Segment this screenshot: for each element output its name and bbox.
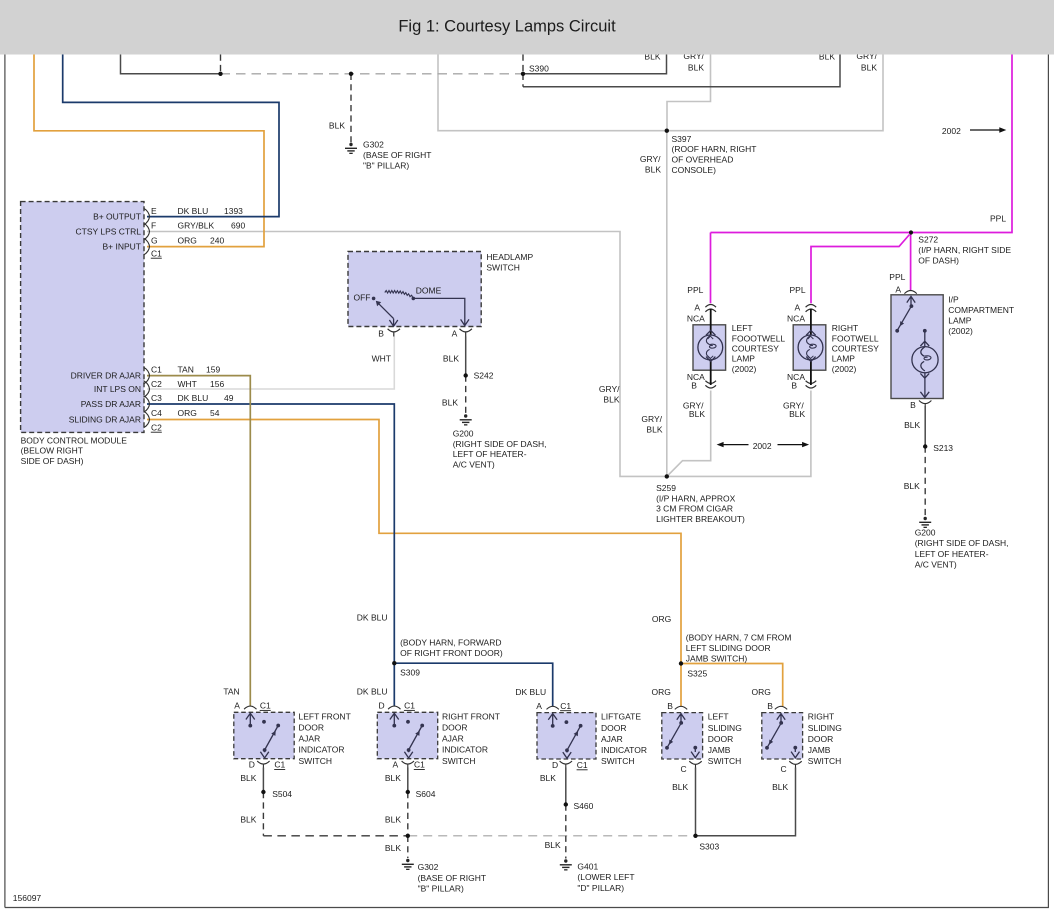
svg-text:DK BLU: DK BLU bbox=[357, 686, 388, 696]
svg-text:BLK: BLK bbox=[646, 424, 662, 434]
svg-text:ORG: ORG bbox=[178, 235, 197, 245]
svg-text:54: 54 bbox=[210, 408, 220, 418]
svg-text:(LOWER LEFT: (LOWER LEFT bbox=[577, 872, 634, 882]
svg-text:AJAR: AJAR bbox=[442, 734, 464, 744]
svg-text:C3: C3 bbox=[151, 393, 162, 403]
svg-text:690: 690 bbox=[231, 221, 245, 231]
svg-text:C4: C4 bbox=[151, 408, 162, 418]
svg-text:LEFT FRONT: LEFT FRONT bbox=[299, 711, 351, 721]
svg-text:S397: S397 bbox=[672, 134, 692, 144]
svg-text:"D" PILLAR): "D" PILLAR) bbox=[577, 883, 624, 893]
svg-text:OF DASH): OF DASH) bbox=[918, 256, 959, 266]
svg-text:B: B bbox=[378, 329, 384, 339]
svg-text:G200: G200 bbox=[915, 527, 936, 537]
svg-text:PPL: PPL bbox=[889, 272, 905, 282]
svg-text:DK BLU: DK BLU bbox=[357, 612, 388, 622]
svg-text:BLK: BLK bbox=[385, 843, 401, 853]
svg-text:S390: S390 bbox=[529, 64, 549, 74]
svg-text:JAMB: JAMB bbox=[808, 745, 831, 755]
svg-text:PPL: PPL bbox=[990, 213, 1006, 223]
svg-text:INDICATOR: INDICATOR bbox=[442, 745, 488, 755]
svg-text:BLK: BLK bbox=[861, 63, 877, 73]
svg-text:156: 156 bbox=[210, 379, 224, 389]
svg-text:G200: G200 bbox=[453, 428, 474, 438]
svg-text:D: D bbox=[552, 760, 558, 770]
svg-text:BLK: BLK bbox=[385, 773, 401, 783]
svg-text:Fig 1: Courtesy Lamps Circuit: Fig 1: Courtesy Lamps Circuit bbox=[398, 18, 616, 36]
svg-text:C2: C2 bbox=[151, 422, 162, 432]
svg-text:OF OVERHEAD: OF OVERHEAD bbox=[672, 155, 734, 165]
svg-text:C: C bbox=[680, 764, 686, 774]
svg-text:DOOR: DOOR bbox=[601, 723, 627, 733]
svg-text:TAN: TAN bbox=[178, 365, 194, 375]
svg-text:(RIGHT SIDE OF DASH,: (RIGHT SIDE OF DASH, bbox=[915, 538, 1009, 548]
svg-text:(I/P HARN, APPROX: (I/P HARN, APPROX bbox=[656, 493, 736, 503]
svg-text:S460: S460 bbox=[574, 801, 594, 811]
svg-text:C: C bbox=[780, 764, 786, 774]
svg-text:OFF: OFF bbox=[354, 292, 371, 302]
svg-text:CONSOLE): CONSOLE) bbox=[672, 165, 717, 175]
svg-text:INT LPS ON: INT LPS ON bbox=[94, 384, 141, 394]
svg-text:C1: C1 bbox=[414, 760, 425, 770]
svg-text:(BODY HARN, 7 CM FROM: (BODY HARN, 7 CM FROM bbox=[686, 633, 792, 643]
svg-text:SIDE OF DASH): SIDE OF DASH) bbox=[21, 456, 84, 466]
svg-text:D: D bbox=[378, 701, 384, 711]
svg-text:3 CM FROM CIGAR: 3 CM FROM CIGAR bbox=[656, 504, 733, 514]
svg-text:LIGHTER BREAKOUT): LIGHTER BREAKOUT) bbox=[656, 514, 745, 524]
svg-text:(BASE OF RIGHT: (BASE OF RIGHT bbox=[363, 150, 431, 160]
svg-text:LAMP: LAMP bbox=[732, 354, 755, 364]
svg-text:D: D bbox=[249, 760, 255, 770]
svg-text:BLK: BLK bbox=[904, 420, 920, 430]
svg-text:SLIDING: SLIDING bbox=[808, 723, 842, 733]
svg-text:1393: 1393 bbox=[224, 206, 243, 216]
svg-text:COURTESY: COURTESY bbox=[832, 344, 879, 354]
svg-text:NCA: NCA bbox=[687, 313, 705, 323]
svg-text:BLK: BLK bbox=[329, 120, 345, 130]
svg-text:240: 240 bbox=[210, 235, 224, 245]
svg-text:(2002): (2002) bbox=[732, 364, 757, 374]
svg-text:B: B bbox=[667, 701, 673, 711]
svg-text:2002: 2002 bbox=[942, 126, 961, 136]
svg-text:RIGHT: RIGHT bbox=[832, 323, 858, 333]
svg-text:LAMP: LAMP bbox=[948, 316, 971, 326]
svg-text:BLK: BLK bbox=[688, 63, 704, 73]
svg-text:DK BLU: DK BLU bbox=[178, 393, 209, 403]
svg-text:(BELOW RIGHT: (BELOW RIGHT bbox=[21, 446, 83, 456]
svg-text:COMPARTMENT: COMPARTMENT bbox=[948, 305, 1014, 315]
svg-text:LEFT OF HEATER-: LEFT OF HEATER- bbox=[915, 549, 989, 559]
svg-text:(RIGHT SIDE OF DASH,: (RIGHT SIDE OF DASH, bbox=[453, 439, 547, 449]
svg-text:SWITCH: SWITCH bbox=[708, 756, 742, 766]
svg-text:BLK: BLK bbox=[772, 782, 788, 792]
svg-text:LAMP: LAMP bbox=[832, 354, 855, 364]
svg-text:BLK: BLK bbox=[545, 840, 561, 850]
svg-text:BLK: BLK bbox=[385, 814, 401, 824]
svg-text:(2002): (2002) bbox=[832, 364, 857, 374]
svg-text:GRY/: GRY/ bbox=[641, 414, 662, 424]
svg-text:S309: S309 bbox=[400, 668, 420, 678]
svg-text:G302: G302 bbox=[363, 140, 384, 150]
svg-text:PPL: PPL bbox=[687, 285, 703, 295]
svg-text:S325: S325 bbox=[687, 668, 707, 678]
svg-text:BLK: BLK bbox=[240, 814, 256, 824]
svg-text:BLK: BLK bbox=[689, 409, 705, 419]
svg-text:INDICATOR: INDICATOR bbox=[601, 745, 647, 755]
svg-text:B+ OUTPUT: B+ OUTPUT bbox=[93, 212, 141, 222]
svg-text:S272: S272 bbox=[918, 235, 938, 245]
svg-text:(BODY HARN, FORWARD: (BODY HARN, FORWARD bbox=[400, 638, 501, 648]
svg-text:B: B bbox=[767, 701, 773, 711]
svg-text:ORG: ORG bbox=[652, 614, 671, 624]
svg-text:PASS DR AJAR: PASS DR AJAR bbox=[81, 399, 141, 409]
svg-text:SWITCH: SWITCH bbox=[808, 756, 842, 766]
svg-text:SWITCH: SWITCH bbox=[299, 756, 333, 766]
svg-text:A: A bbox=[452, 329, 458, 339]
svg-text:G302: G302 bbox=[418, 862, 439, 872]
svg-text:LEFT: LEFT bbox=[732, 323, 753, 333]
svg-text:F: F bbox=[151, 221, 156, 231]
svg-text:156097: 156097 bbox=[13, 893, 42, 903]
svg-text:BLK: BLK bbox=[645, 165, 661, 175]
svg-text:A/C VENT): A/C VENT) bbox=[915, 560, 957, 570]
svg-text:DOOR: DOOR bbox=[808, 734, 834, 744]
svg-text:2002: 2002 bbox=[753, 441, 772, 451]
svg-text:A: A bbox=[694, 303, 700, 313]
svg-text:SWITCH: SWITCH bbox=[601, 756, 635, 766]
svg-text:DOOR: DOOR bbox=[708, 734, 734, 744]
svg-text:AJAR: AJAR bbox=[601, 734, 623, 744]
svg-text:C1: C1 bbox=[151, 365, 162, 375]
svg-text:BLK: BLK bbox=[240, 773, 256, 783]
svg-text:SWITCH: SWITCH bbox=[442, 756, 476, 766]
svg-text:RIGHT: RIGHT bbox=[808, 712, 834, 722]
svg-text:LEFT OF HEATER-: LEFT OF HEATER- bbox=[453, 449, 527, 459]
svg-text:DK BLU: DK BLU bbox=[515, 687, 546, 697]
svg-text:INDICATOR: INDICATOR bbox=[299, 745, 345, 755]
svg-text:G401: G401 bbox=[577, 861, 598, 871]
svg-text:C1: C1 bbox=[260, 701, 271, 711]
svg-text:RIGHT FRONT: RIGHT FRONT bbox=[442, 711, 500, 721]
svg-text:BLK: BLK bbox=[789, 409, 805, 419]
svg-text:PPL: PPL bbox=[790, 285, 806, 295]
svg-text:DRIVER DR AJAR: DRIVER DR AJAR bbox=[71, 371, 141, 381]
svg-text:C1: C1 bbox=[274, 760, 285, 770]
svg-text:CTSY LPS CTRL: CTSY LPS CTRL bbox=[75, 227, 141, 237]
svg-text:B: B bbox=[910, 400, 916, 410]
svg-text:TAN: TAN bbox=[223, 686, 239, 696]
svg-text:BLK: BLK bbox=[443, 353, 459, 363]
svg-text:A/C VENT): A/C VENT) bbox=[453, 460, 495, 470]
svg-text:B: B bbox=[691, 381, 697, 391]
svg-text:ORG: ORG bbox=[178, 408, 197, 418]
svg-text:I/P: I/P bbox=[948, 295, 959, 305]
svg-text:"B" PILLAR): "B" PILLAR) bbox=[418, 884, 464, 894]
svg-text:(I/P HARN, RIGHT SIDE: (I/P HARN, RIGHT SIDE bbox=[918, 245, 1011, 255]
svg-text:S303: S303 bbox=[699, 842, 719, 852]
svg-text:159: 159 bbox=[206, 365, 220, 375]
svg-text:A: A bbox=[895, 285, 901, 295]
svg-text:C1: C1 bbox=[577, 760, 588, 770]
svg-text:S259: S259 bbox=[656, 483, 676, 493]
svg-text:S213: S213 bbox=[933, 443, 953, 453]
svg-text:B: B bbox=[791, 381, 797, 391]
svg-text:S604: S604 bbox=[416, 789, 436, 799]
svg-text:FOOOTWELL: FOOOTWELL bbox=[732, 334, 786, 344]
svg-text:C1: C1 bbox=[404, 701, 415, 711]
svg-text:A: A bbox=[234, 701, 240, 711]
svg-text:HEADLAMP: HEADLAMP bbox=[486, 252, 533, 262]
svg-text:OF RIGHT FRONT DOOR): OF RIGHT FRONT DOOR) bbox=[400, 648, 503, 658]
svg-text:S242: S242 bbox=[474, 370, 494, 380]
svg-text:A: A bbox=[536, 701, 542, 711]
svg-text:LEFT SLIDING DOOR: LEFT SLIDING DOOR bbox=[686, 643, 771, 653]
svg-text:B+ INPUT: B+ INPUT bbox=[103, 242, 142, 252]
svg-text:SLIDING DR AJAR: SLIDING DR AJAR bbox=[69, 415, 141, 425]
svg-text:SWITCH: SWITCH bbox=[486, 262, 520, 272]
svg-text:FOOTWELL: FOOTWELL bbox=[832, 334, 879, 344]
svg-text:LEFT: LEFT bbox=[708, 712, 729, 722]
svg-text:BLK: BLK bbox=[442, 397, 458, 407]
svg-text:GRY/BLK: GRY/BLK bbox=[178, 221, 215, 231]
svg-text:E: E bbox=[151, 206, 157, 216]
svg-text:WHT: WHT bbox=[372, 353, 391, 363]
svg-text:DOOR: DOOR bbox=[442, 723, 468, 733]
svg-text:JAMB SWITCH): JAMB SWITCH) bbox=[686, 653, 748, 663]
svg-text:BODY CONTROL MODULE: BODY CONTROL MODULE bbox=[21, 435, 128, 445]
svg-text:LIFTGATE: LIFTGATE bbox=[601, 712, 641, 722]
svg-text:C1: C1 bbox=[151, 248, 162, 258]
svg-text:C1: C1 bbox=[560, 701, 571, 711]
svg-text:S504: S504 bbox=[272, 789, 292, 799]
svg-text:BLK: BLK bbox=[603, 395, 619, 405]
svg-text:(ROOF HARN, RIGHT: (ROOF HARN, RIGHT bbox=[672, 144, 757, 154]
svg-text:DOOR: DOOR bbox=[299, 723, 325, 733]
svg-text:NCA: NCA bbox=[787, 313, 805, 323]
svg-text:ORG: ORG bbox=[652, 687, 671, 697]
svg-text:WHT: WHT bbox=[178, 379, 197, 389]
svg-text:GRY/: GRY/ bbox=[599, 384, 620, 394]
svg-text:A: A bbox=[795, 303, 801, 313]
svg-text:BLK: BLK bbox=[540, 773, 556, 783]
svg-text:COURTESY: COURTESY bbox=[732, 344, 779, 354]
svg-text:DOME: DOME bbox=[416, 285, 442, 295]
svg-text:(2002): (2002) bbox=[948, 326, 973, 336]
svg-text:JAMB: JAMB bbox=[708, 745, 731, 755]
svg-text:SLIDING: SLIDING bbox=[708, 723, 742, 733]
svg-text:49: 49 bbox=[224, 393, 234, 403]
svg-text:GRY/: GRY/ bbox=[640, 154, 661, 164]
svg-text:ORG: ORG bbox=[752, 687, 771, 697]
svg-text:G: G bbox=[151, 235, 158, 245]
svg-text:BLK: BLK bbox=[672, 782, 688, 792]
svg-text:DK BLU: DK BLU bbox=[178, 206, 209, 216]
svg-text:BLK: BLK bbox=[904, 481, 920, 491]
svg-text:AJAR: AJAR bbox=[299, 734, 321, 744]
svg-text:A: A bbox=[393, 760, 399, 770]
svg-text:"B" PILLAR): "B" PILLAR) bbox=[363, 161, 409, 171]
svg-text:C2: C2 bbox=[151, 379, 162, 389]
svg-text:(BASE OF RIGHT: (BASE OF RIGHT bbox=[418, 873, 486, 883]
